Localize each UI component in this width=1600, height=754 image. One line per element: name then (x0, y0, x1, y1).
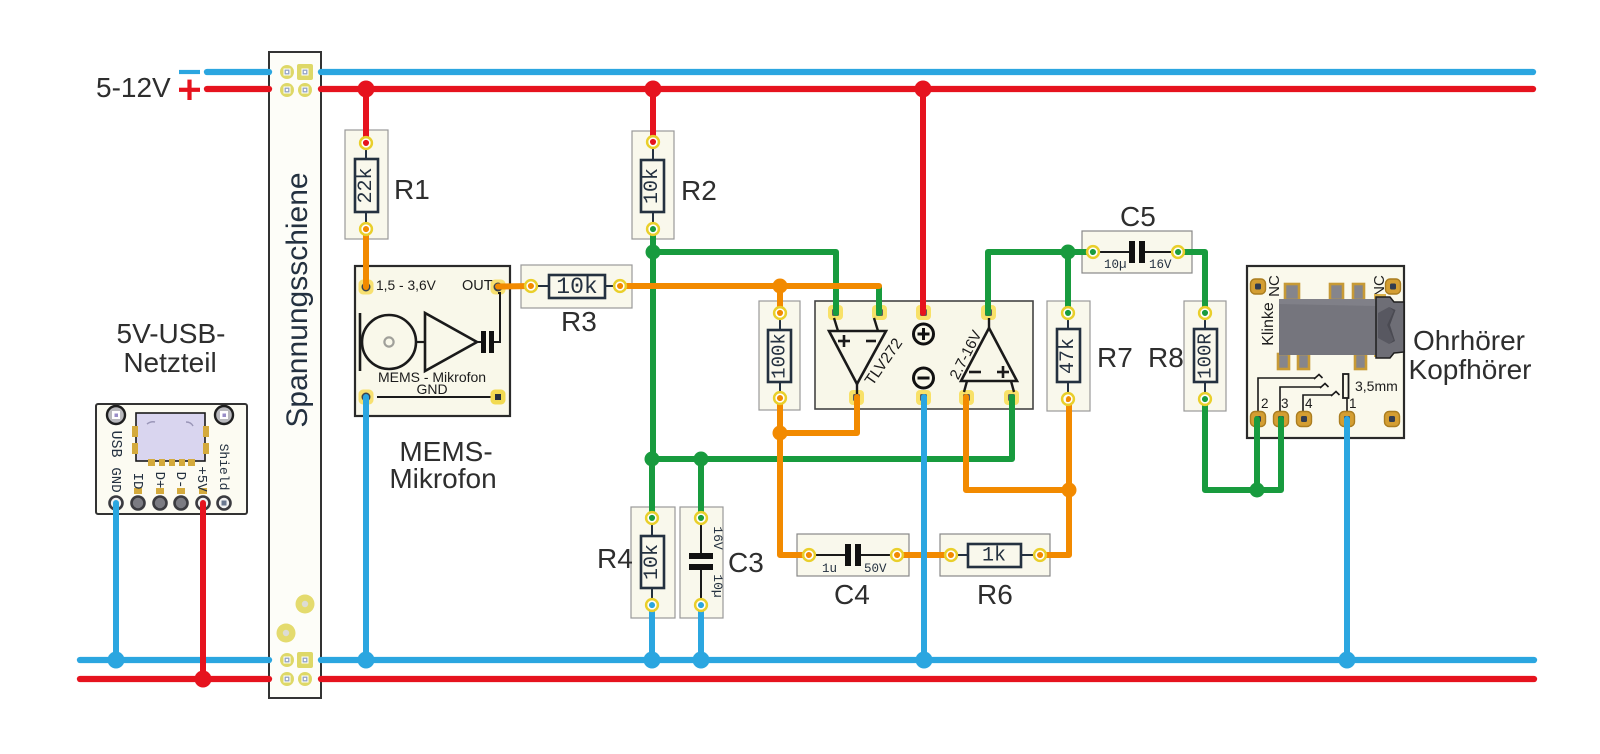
wire red bottom rail right (321, 676, 1534, 682)
svg-text:4: 4 (1305, 396, 1313, 411)
svg-text:GND: GND (416, 381, 447, 397)
jack pad NC top-left (1251, 279, 1266, 294)
op-amp V+ symbol (914, 324, 934, 344)
label R7 (1097, 342, 1133, 373)
svg-text:Netzteil: Netzteil (123, 347, 216, 378)
junction blue bottom rail at op-amp (916, 652, 933, 669)
svg-text:22k: 22k (355, 167, 378, 203)
wire orange R6 to R7 junction (1040, 490, 1069, 555)
pads R1 (360, 137, 372, 235)
label C3 (728, 547, 764, 578)
wire red top rail right (321, 86, 1533, 92)
wire orange junction to op-amp B IN- (966, 397, 1069, 490)
wire red rail to op-amp V+ (920, 89, 926, 313)
svg-text:1k: 1k (982, 545, 1006, 568)
svg-text:100k: 100k (769, 333, 791, 379)
svg-text:ID: ID (129, 473, 145, 490)
wire blue R4 to bottom rail (649, 605, 655, 660)
MEMS text GND (416, 381, 447, 397)
C3 value 10u (710, 574, 725, 597)
svg-text:Ohrhörer: Ohrhörer (1413, 325, 1525, 356)
junction blue bottom rail at C3 (693, 652, 710, 669)
op-amp pads top (828, 305, 996, 320)
pads R4 (646, 512, 658, 611)
pads C3 (695, 512, 707, 611)
label Ohrhoerer Kopfhoerer (1409, 325, 1532, 385)
wire orange R7 bottom to junction (1066, 399, 1072, 490)
pads C4 (803, 549, 903, 561)
MEMS pad NC (bottom right) (491, 390, 506, 405)
jack pad 4 (1297, 412, 1312, 427)
svg-text:1,5 - 3,6V: 1,5 - 3,6V (376, 278, 437, 293)
svg-text:47k: 47k (1057, 338, 1080, 374)
junction green at jack pin 2 (1250, 483, 1265, 498)
capacitor C3 board (680, 507, 723, 618)
svg-text:Shield: Shield (216, 444, 231, 491)
svg-text:Spannungsschiene: Spannungsschiene (281, 172, 314, 427)
R2 value 10k (641, 168, 664, 204)
pads schiene middle big (277, 595, 315, 643)
svg-text:R6: R6 (977, 579, 1013, 610)
svg-text:R4: R4 (597, 543, 633, 574)
wire orange stub to R5 100k top (777, 286, 783, 313)
R3 value 10k (556, 274, 597, 300)
resistor R3 board (521, 265, 632, 308)
svg-text:R3: R3 (561, 306, 597, 337)
R5 value 100k (769, 333, 791, 379)
wire orange junction down to C4 (780, 433, 809, 555)
junction green at C3 (694, 452, 709, 467)
jack schematic pin 2 (1258, 375, 1323, 413)
R7 value 47k (1057, 338, 1080, 374)
op-amp V- symbol (914, 368, 934, 388)
wire green R2 to op-amp IN+ (653, 229, 836, 313)
label R4 (597, 543, 633, 574)
wire blue op-amp V- to bottom rail (921, 397, 927, 660)
resistor R4 board (631, 507, 675, 618)
pads R6 (945, 549, 1046, 561)
C5 value 16V (1149, 258, 1172, 272)
R6 value 1k (982, 545, 1006, 568)
svg-text:16V: 16V (710, 526, 725, 550)
svg-text:R7: R7 (1097, 342, 1133, 373)
mounting hole right (215, 406, 233, 424)
C5 value 10u (1104, 258, 1127, 272)
junction red top rail at R2 (645, 81, 662, 98)
resistor R5 100k board (759, 301, 800, 410)
wire orange C4 to R6 (897, 552, 951, 558)
pads schiene top (280, 64, 313, 97)
C4 value 50V (864, 562, 887, 576)
MEMS microphone symbol (360, 293, 500, 371)
label C5 (1120, 201, 1156, 232)
wire blue MEMS GND to bottom rail (363, 397, 369, 660)
wire green node column from R2 junction down (650, 252, 656, 459)
svg-text:Mikrofon: Mikrofon (389, 463, 496, 494)
junction orange at R7 bottom (1062, 483, 1077, 498)
label 5-12V (96, 72, 171, 103)
jack pin number 1 (1349, 396, 1357, 411)
wire green stub to C3 (698, 459, 704, 518)
wire green stub to R4 (649, 459, 655, 518)
label R1 (394, 174, 430, 205)
svg-text:R8: R8 (1148, 342, 1184, 373)
label Spannungsschiene (281, 172, 314, 427)
svg-text:R1: R1 (394, 174, 430, 205)
jack pin number 2 (1261, 396, 1269, 411)
svg-text:10µ: 10µ (710, 574, 725, 597)
MEMS text 1,5 - 3,6V (376, 278, 437, 293)
resistor R1 board (345, 130, 388, 239)
jack schematic pin 4 (1303, 392, 1340, 413)
MEMS pads (359, 280, 506, 405)
op-amp B label 2.7-16V (946, 328, 985, 383)
jack pad NC bottom-right (1385, 412, 1400, 427)
svg-text:C5: C5 (1120, 201, 1156, 232)
pads R7 (1062, 307, 1074, 405)
svg-text:D+: D+ (151, 472, 167, 489)
minus symbol (blue) (179, 70, 200, 74)
op-amp A triangle (829, 318, 886, 394)
junction green at C5 (1061, 245, 1076, 260)
jack pad 3 (1274, 412, 1289, 427)
junction red top rail at R1 (358, 81, 375, 98)
pads C5 (1087, 246, 1184, 258)
jack pad 2 (1251, 412, 1266, 427)
junction orange below R5 (773, 426, 788, 441)
wire orange op-amp A output to junction (780, 397, 857, 433)
capacitor C4 board (797, 534, 909, 576)
svg-text:C4: C4 (834, 579, 870, 610)
pads R3 (525, 280, 626, 292)
board MEMS microphone (355, 266, 510, 416)
MEMS text OUT (462, 278, 493, 294)
R4 value 10k (641, 544, 664, 580)
svg-text:USB: USB (107, 430, 124, 457)
wire green C5 junction to R7 (1065, 252, 1071, 313)
wire green stub to jack pin 2 (1254, 419, 1260, 490)
resistor R2 board (632, 131, 674, 239)
wire blue bottom rail right (321, 657, 1534, 663)
wire orange MEMS OUT to R3 (498, 283, 531, 290)
op-amp U1 TLV272 board (815, 301, 1033, 409)
svg-text:2: 2 (1261, 396, 1269, 411)
svg-text:10k: 10k (641, 168, 664, 204)
svg-text:+5V: +5V (193, 466, 209, 492)
wire red USB +5V to bottom rail (200, 503, 206, 679)
wire orange R5 100k bottom to junction (777, 398, 783, 433)
wire blue C3 to bottom rail (698, 605, 704, 660)
svg-text:16V: 16V (1149, 258, 1172, 272)
svg-text:3: 3 (1281, 396, 1289, 411)
USB connector (132, 413, 209, 466)
jack pin number 4 (1305, 396, 1313, 411)
wire green C5 to R8 (1178, 252, 1205, 313)
svg-text:10k: 10k (641, 544, 664, 580)
junction green below R2 (646, 245, 661, 260)
wire green op-amp B input to C5 junction (988, 252, 1093, 313)
wire green feedback rail to op-amp B output (653, 397, 1012, 459)
wire orange R1 to MEMS supply (363, 229, 369, 287)
jack label 3,5mm (1355, 378, 1398, 394)
MEMS GND trace line (377, 396, 491, 398)
jack schematic pin 1 and plug symbol (1343, 374, 1349, 412)
wire orange R3 to op-amp IN- column (620, 283, 879, 289)
wire red bottom rail left (80, 676, 269, 682)
svg-text:5V-USB-: 5V-USB- (117, 318, 226, 349)
wire green stub into op-amp IN- (876, 287, 882, 313)
board Spannungsschiene (269, 52, 321, 698)
R8 value 100R (1195, 333, 1217, 379)
wire red rail to R2 (650, 89, 656, 142)
label R2 (681, 175, 717, 206)
C4 value 1u (822, 562, 837, 576)
label R8 (1148, 342, 1184, 373)
wire blue USB GND to bottom rail (113, 503, 119, 660)
jack pin number 3 (1281, 396, 1289, 411)
wire blue jack pin 1 to bottom rail (1344, 419, 1350, 660)
junction green at R4 (645, 452, 660, 467)
C3 value 16V (710, 526, 725, 550)
svg-text:D-: D- (172, 472, 188, 489)
jack label NC right (1371, 275, 1388, 297)
label R6 (977, 579, 1013, 610)
wire blue top rail left (207, 69, 269, 75)
svg-text:100R: 100R (1195, 333, 1217, 379)
label 5V-USB-Netzteil (117, 318, 226, 378)
junction blue bottom rail at USB (108, 652, 125, 669)
mounting hole left (107, 406, 125, 424)
wire green R8 to jack pins 2 and 3 (1205, 399, 1281, 490)
svg-text:NC: NC (1371, 275, 1388, 297)
junction blue bottom rail at R4 (644, 652, 661, 669)
svg-text:Kopfhörer: Kopfhörer (1409, 354, 1532, 385)
wire blue bottom rail left (80, 657, 269, 663)
svg-text:10µ: 10µ (1104, 258, 1127, 272)
svg-text:OUT: OUT (462, 278, 493, 294)
board Klinke jack (1247, 266, 1404, 438)
pads R5 100k (774, 307, 786, 404)
pads R8 (1199, 307, 1211, 405)
label MEMS-Mikrofon (389, 436, 496, 494)
USB pin labels (107, 430, 231, 492)
capacitor C5 board (1082, 231, 1192, 273)
junction blue bottom rail at MEMS (358, 652, 375, 669)
pads R2 (647, 136, 659, 235)
svg-text:R2: R2 (681, 175, 717, 206)
svg-text:3,5mm: 3,5mm (1355, 378, 1398, 394)
pads schiene bottom (280, 652, 313, 686)
svg-text:50V: 50V (864, 562, 887, 576)
svg-text:C3: C3 (728, 547, 764, 578)
svg-text:1: 1 (1349, 396, 1357, 411)
jack label Klinke (1260, 302, 1277, 346)
svg-text:Klinke: Klinke (1260, 302, 1277, 346)
board USB Netzteil (96, 404, 247, 514)
junction orange at R5 top (773, 279, 788, 294)
jack pad 1 (1340, 412, 1355, 427)
svg-text:1u: 1u (822, 562, 837, 576)
svg-text:10k: 10k (556, 274, 597, 300)
op-amp pads bottom (849, 390, 1019, 405)
op-amp A label TLV272 (862, 335, 906, 388)
wire red rail to R1 (363, 89, 369, 143)
resistor R8 board (1184, 301, 1226, 411)
junction red top rail at op-amp (915, 81, 932, 98)
svg-text:NC: NC (1266, 275, 1283, 297)
svg-text:GND: GND (107, 467, 123, 492)
USB pin pads (110, 488, 231, 510)
wire blue top rail right (321, 69, 1533, 75)
op-amp B triangle (961, 318, 1017, 392)
jack pad NC top-right (1386, 279, 1401, 294)
jack label NC left (1266, 275, 1283, 297)
svg-text:5-12V: 5-12V (96, 72, 171, 103)
junction red bottom rail at USB (195, 671, 212, 688)
plus symbol (red) (179, 80, 200, 100)
resistor R7 board (1047, 301, 1090, 411)
jack schematic pin 3 (1280, 384, 1329, 413)
label R3 (561, 306, 597, 337)
resistor R6 board (940, 534, 1050, 576)
MEMS text MEMS - Mikrofon (378, 369, 486, 385)
jack connector body (1278, 284, 1404, 369)
label C4 (834, 579, 870, 610)
wire red top rail left (207, 86, 269, 92)
junction blue bottom rail at jack (1339, 652, 1356, 669)
R1 value 22k (355, 167, 378, 203)
